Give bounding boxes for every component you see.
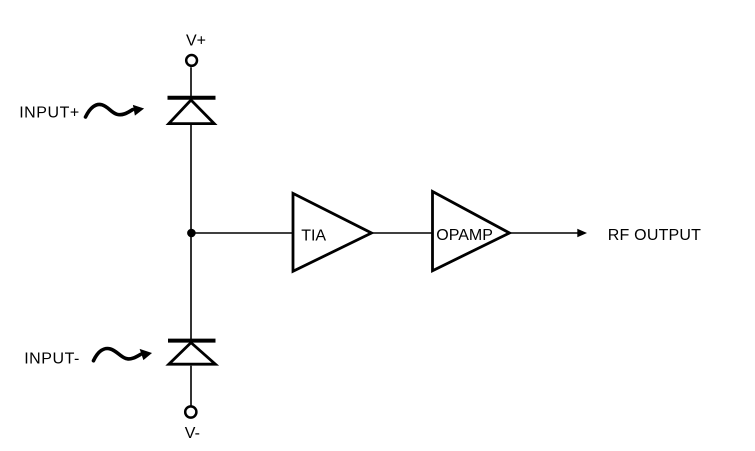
svg-text:TIA: TIA xyxy=(301,228,326,245)
amplifier TIA xyxy=(293,193,372,271)
photodiode D2 cathode bar xyxy=(168,339,216,343)
svg-text:V-: V- xyxy=(185,425,200,442)
wire node A to photodiode D2 xyxy=(190,233,192,339)
wire D1 to node A xyxy=(190,124,192,233)
photodiode D1 triangle xyxy=(169,100,214,124)
terminal V- xyxy=(185,406,196,417)
wire node A to TIA input xyxy=(191,232,292,234)
svg-text:INPUT+: INPUT+ xyxy=(19,105,80,122)
photodiode D1 cathode bar xyxy=(168,96,216,100)
signal arrow into D2 xyxy=(94,349,153,361)
wire D2 to V- terminal xyxy=(190,366,192,406)
svg-text:V+: V+ xyxy=(186,33,206,50)
amplifier OPAMP xyxy=(433,192,510,271)
arrowhead RF OUTPUT xyxy=(577,229,587,238)
svg-text:INPUT-: INPUT- xyxy=(24,350,80,367)
terminal V+ xyxy=(186,55,197,66)
node A junction dot xyxy=(187,229,196,238)
wire TIA output to OPAMP input xyxy=(373,232,433,234)
svg-text:RF OUTPUT: RF OUTPUT xyxy=(608,227,701,244)
wire OPAMP output to RF OUTPUT xyxy=(511,232,579,234)
photodiode D2 triangle xyxy=(169,343,216,365)
signal arrow into D1 xyxy=(86,104,145,117)
wire V+ terminal to photodiode D1 xyxy=(190,67,192,96)
svg-text:OPAMP: OPAMP xyxy=(436,227,493,244)
